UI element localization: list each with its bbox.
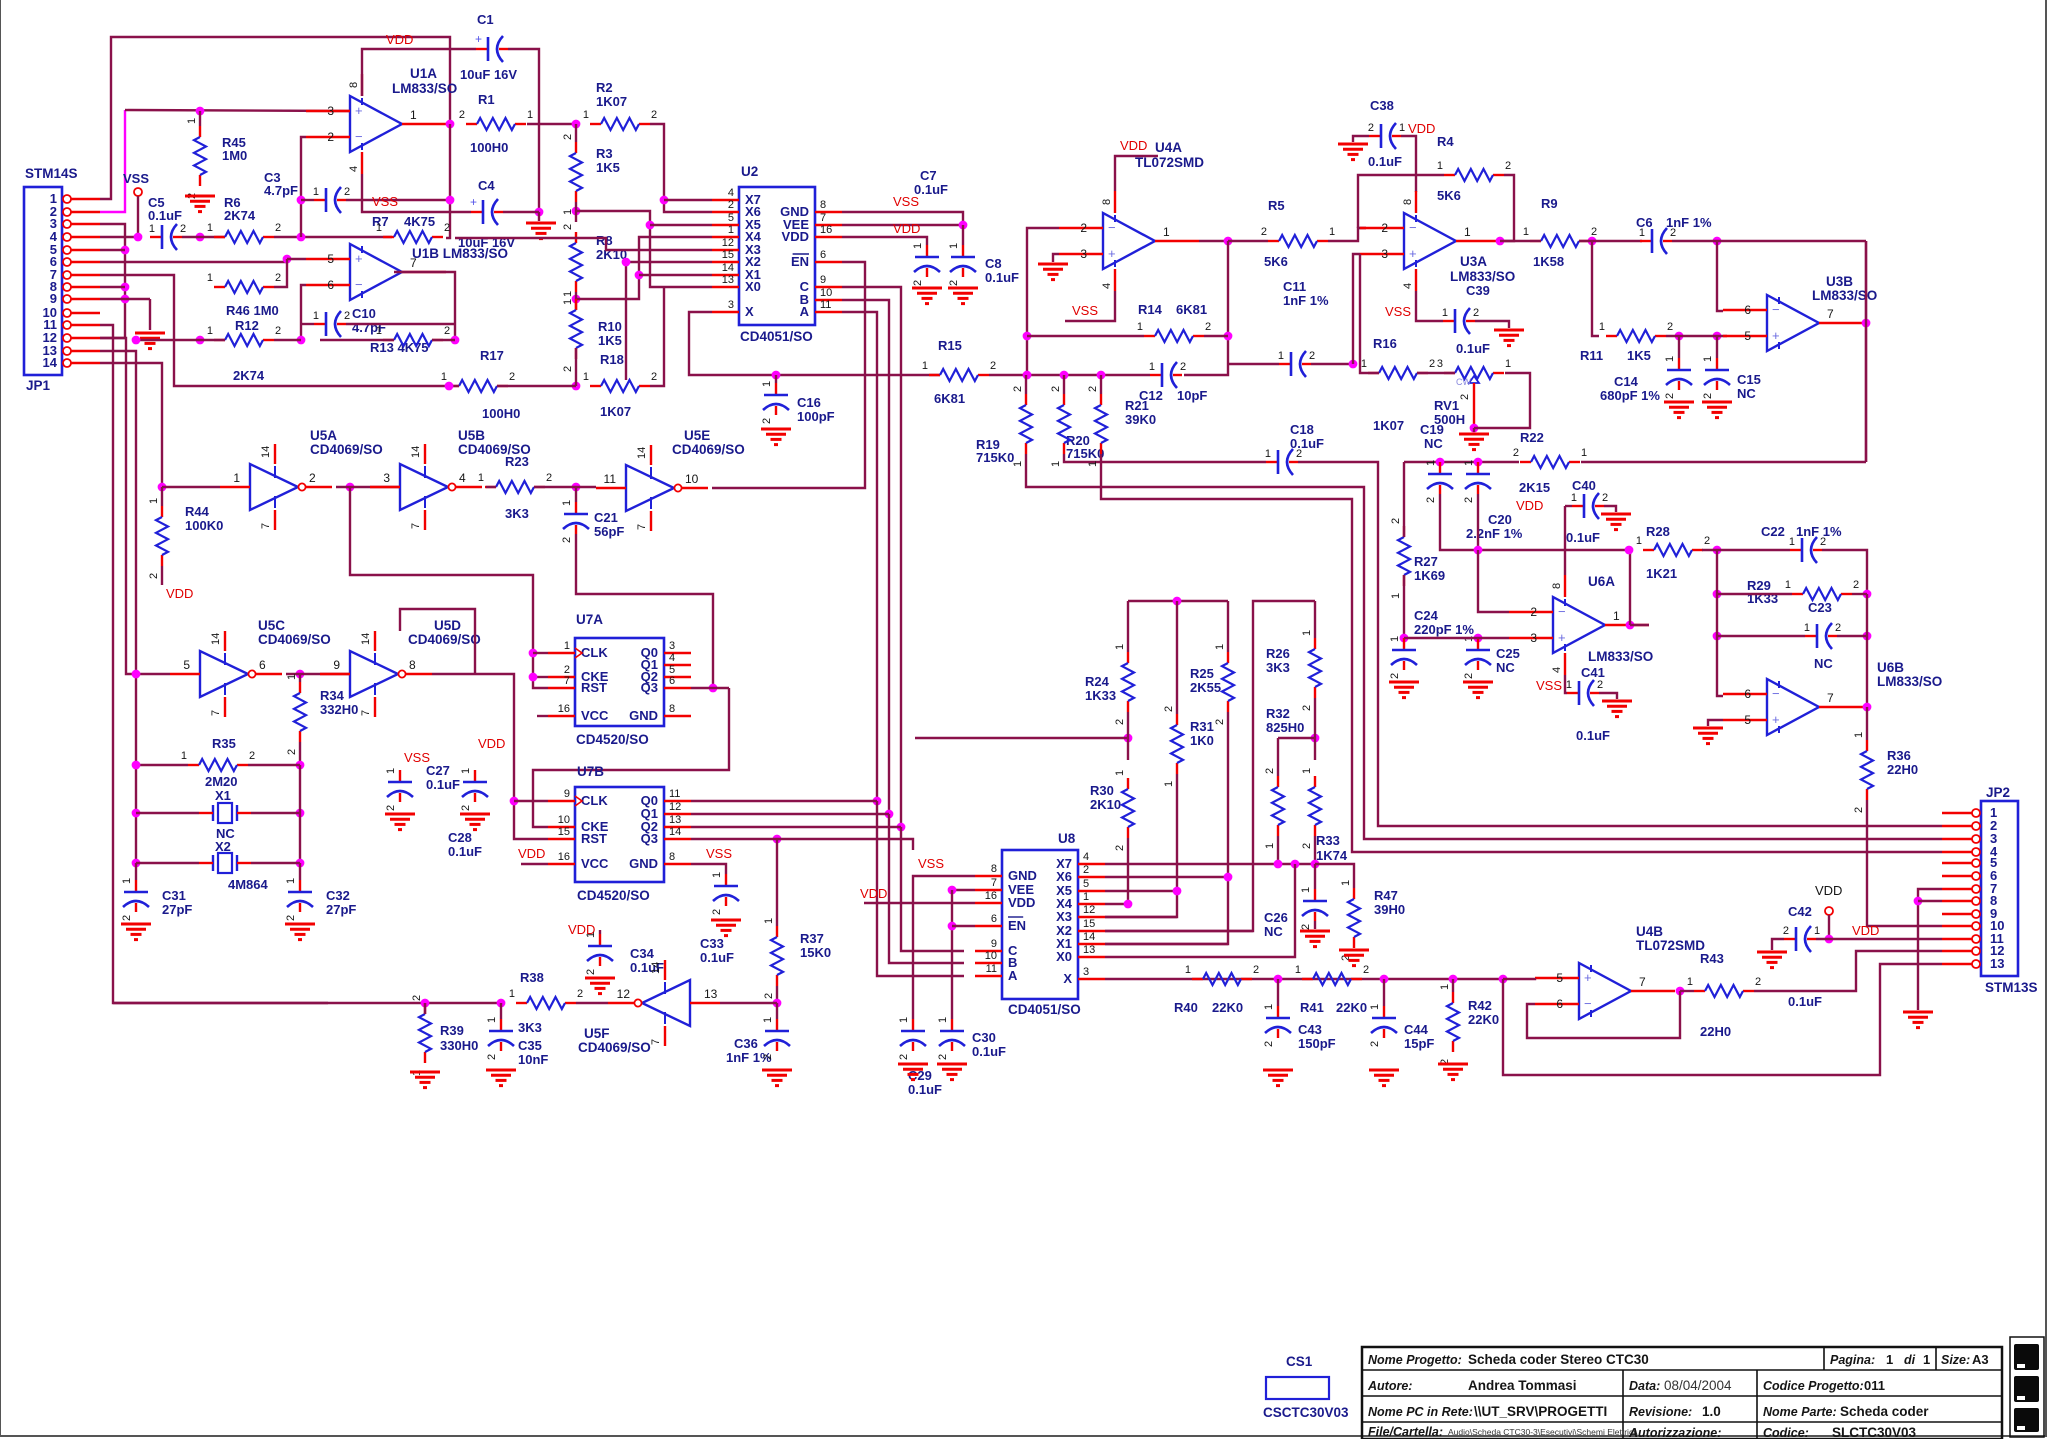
svg-text:332H0: 332H0 xyxy=(320,702,358,717)
wire R16-RV1 xyxy=(1417,372,1455,374)
svg-text:3K3: 3K3 xyxy=(1266,660,1290,675)
svg-text:13: 13 xyxy=(704,987,718,1001)
svg-text:22H0: 22H0 xyxy=(1700,1024,1731,1039)
svg-text:1: 1 xyxy=(922,360,928,372)
svg-text:2: 2 xyxy=(1755,976,1761,988)
wire C19/C20 bottoms xyxy=(1440,494,1629,550)
wire U8 X4 row xyxy=(1105,903,1128,905)
svg-text:1: 1 xyxy=(1361,358,1367,370)
wire trunk y738 xyxy=(915,737,1128,739)
svg-text:Q3: Q3 xyxy=(641,680,658,695)
node R24-R30 xyxy=(1124,734,1133,743)
svg-text:22K0: 22K0 xyxy=(1212,1000,1243,1015)
svg-text:2: 2 xyxy=(1389,673,1401,679)
wire EN net xyxy=(712,262,865,488)
wire U6B+ ground xyxy=(1708,720,1723,726)
svg-text:R23: R23 xyxy=(505,454,529,469)
svg-text:100pF: 100pF xyxy=(797,409,835,424)
svg-text:CLK: CLK xyxy=(581,645,608,660)
svg-text:+: + xyxy=(470,195,477,209)
svg-text:2: 2 xyxy=(651,109,657,121)
svg-text:VDD: VDD xyxy=(1408,121,1435,136)
wire U5D out to U7B CLK/RST xyxy=(432,674,548,839)
svg-text:VSS: VSS xyxy=(918,856,944,871)
svg-text:VDD: VDD xyxy=(1852,923,1879,938)
ground C25 xyxy=(1463,681,1493,684)
svg-text:1M0: 1M0 xyxy=(222,148,247,163)
ground R47 xyxy=(1339,949,1369,952)
svg-text:R33: R33 xyxy=(1316,833,1340,848)
svg-text:1: 1 xyxy=(1390,593,1402,599)
wire U8 X3 row xyxy=(1105,916,1177,918)
node C44 xyxy=(1380,975,1389,984)
svg-text:8: 8 xyxy=(1101,199,1113,205)
svg-text:1: 1 xyxy=(181,750,187,762)
svg-text:2: 2 xyxy=(509,371,515,383)
wire R37.2 to U5F out xyxy=(776,986,778,1003)
svg-text:−: − xyxy=(355,277,363,292)
wire U1B+ input xyxy=(283,255,292,264)
svg-text:CD4520/SO: CD4520/SO xyxy=(576,732,649,747)
svg-text:TL072SMD: TL072SMD xyxy=(1135,155,1204,170)
wire B net xyxy=(842,300,889,814)
svg-text:2: 2 xyxy=(990,360,996,372)
svg-text:X6: X6 xyxy=(1056,869,1072,884)
svg-text:4: 4 xyxy=(459,471,466,485)
svg-text:3: 3 xyxy=(1083,966,1089,978)
wire R4 loop xyxy=(1358,227,1366,229)
svg-text:2: 2 xyxy=(1214,719,1226,725)
svg-text:12: 12 xyxy=(617,987,631,1001)
svg-text:1: 1 xyxy=(583,371,589,383)
svg-text:C26: C26 xyxy=(1264,910,1288,925)
svg-text:NC: NC xyxy=(1264,924,1283,939)
svg-text:8: 8 xyxy=(348,82,360,88)
svg-text:Codice Progetto:: Codice Progetto: xyxy=(1763,1379,1864,1393)
ground C29 xyxy=(898,1063,928,1066)
svg-text:9: 9 xyxy=(564,788,570,800)
svg-text:C28: C28 xyxy=(448,830,472,845)
svg-text:1nF 1%: 1nF 1% xyxy=(1283,293,1329,308)
svg-text:1: 1 xyxy=(1389,636,1401,642)
svg-text:0.1uF: 0.1uF xyxy=(1566,530,1600,545)
ground C34 xyxy=(585,977,615,980)
svg-text:1: 1 xyxy=(1464,225,1471,239)
svg-text:7: 7 xyxy=(1827,691,1834,705)
svg-text:CD4520/SO: CD4520/SO xyxy=(577,888,650,903)
svg-text:2: 2 xyxy=(562,366,574,372)
svg-text:Codice:: Codice: xyxy=(1763,1426,1809,1439)
svg-text:LM833/SO: LM833/SO xyxy=(392,81,457,96)
svg-text:R13 4K75: R13 4K75 xyxy=(370,340,429,355)
svg-text:1: 1 xyxy=(1050,461,1062,467)
wire U6B- vertical xyxy=(1717,550,1723,696)
wire U7B Q1 to B bus xyxy=(885,810,894,819)
svg-text:CD4051/SO: CD4051/SO xyxy=(1008,1002,1081,1017)
wire to X5/X0 xyxy=(576,211,712,287)
svg-text:VSS: VSS xyxy=(372,194,398,209)
svg-text:1K69: 1K69 xyxy=(1414,568,1445,583)
svg-text:SLCTC30V03: SLCTC30V03 xyxy=(1832,1425,1917,1439)
wire X2 down xyxy=(626,262,712,380)
svg-text:3K3: 3K3 xyxy=(518,1020,542,1035)
svg-text:2K10: 2K10 xyxy=(1090,797,1121,812)
svg-text:+: + xyxy=(475,32,482,46)
wire U4A pin4 VSS xyxy=(1065,291,1115,321)
wire JP1.12 down xyxy=(100,338,136,674)
node MPX out xyxy=(1499,975,1508,984)
svg-text:U5F: U5F xyxy=(584,1026,610,1041)
svg-text:1: 1 xyxy=(1163,225,1170,239)
svg-text:4: 4 xyxy=(348,166,360,172)
svg-text:5: 5 xyxy=(1744,713,1751,727)
wire U1B out xyxy=(394,272,455,340)
svg-text:2: 2 xyxy=(937,1054,949,1060)
svg-text:+: + xyxy=(1584,970,1592,985)
svg-text:−: − xyxy=(1772,686,1780,701)
svg-text:2: 2 xyxy=(1702,393,1714,399)
svg-text:1: 1 xyxy=(207,272,213,284)
svg-text:0.1uF: 0.1uF xyxy=(448,844,482,859)
wire JP1.3/5/8/9/12 bus xyxy=(100,224,125,338)
svg-text:+: + xyxy=(355,103,363,118)
wire R27 trunk xyxy=(1404,461,1519,463)
svg-text:6: 6 xyxy=(991,913,997,925)
svg-text:2K55: 2K55 xyxy=(1190,680,1221,695)
svg-text:2K15: 2K15 xyxy=(1519,480,1550,495)
svg-text:2: 2 xyxy=(1301,705,1313,711)
wire U6B feedback vertical xyxy=(1866,594,1868,707)
svg-text:NC: NC xyxy=(1737,386,1756,401)
svg-text:2: 2 xyxy=(1853,579,1859,591)
svg-text:X3: X3 xyxy=(1056,909,1072,924)
svg-text:2: 2 xyxy=(1505,160,1511,172)
svg-text:6: 6 xyxy=(820,249,826,261)
svg-text:VDD: VDD xyxy=(1516,498,1543,513)
svg-text:2: 2 xyxy=(1080,221,1087,235)
node C6.2 xyxy=(1713,237,1722,246)
svg-text:2: 2 xyxy=(1820,536,1826,548)
wire C22.2 xyxy=(1822,550,1867,594)
svg-text:2: 2 xyxy=(562,224,574,230)
wire Q3 to U7B CKE xyxy=(533,688,729,827)
svg-text:56pF: 56pF xyxy=(594,524,624,539)
svg-text:2: 2 xyxy=(327,130,334,144)
svg-text:C42: C42 xyxy=(1788,904,1812,919)
svg-text:1: 1 xyxy=(1087,461,1099,467)
svg-text:2: 2 xyxy=(459,109,465,121)
ground U4A+ xyxy=(1038,263,1068,266)
svg-text:C34: C34 xyxy=(630,946,655,961)
svg-text:R16: R16 xyxy=(1373,336,1397,351)
svg-text:1: 1 xyxy=(1340,880,1352,886)
svg-text:7: 7 xyxy=(1639,975,1646,989)
svg-text:16: 16 xyxy=(985,890,997,902)
svg-text:1: 1 xyxy=(385,768,397,774)
wire R15.2 to summing node xyxy=(989,374,1150,376)
svg-text:100H0: 100H0 xyxy=(470,140,508,155)
svg-text:VSS: VSS xyxy=(1072,303,1098,318)
node R3.1-R8.2 xyxy=(572,207,581,216)
wire R18.2 to X0 node xyxy=(650,287,664,386)
svg-text:1: 1 xyxy=(1571,492,1577,504)
svg-text:VDD: VDD xyxy=(893,221,920,236)
wire C net xyxy=(842,287,901,827)
svg-text:U8: U8 xyxy=(1058,831,1076,846)
svg-text:16: 16 xyxy=(820,224,832,236)
ground C40 xyxy=(1604,506,1616,512)
svg-text:2: 2 xyxy=(1012,386,1024,392)
svg-text:3K3: 3K3 xyxy=(505,506,529,521)
wire U6A- from C19 node xyxy=(1478,550,1509,612)
wire A bus down to U8 xyxy=(877,801,964,976)
wire U4A pin8 VDD xyxy=(1115,156,1158,191)
wire U3A out xyxy=(1496,237,1505,246)
node R8.1 xyxy=(572,295,581,304)
svg-text:Pagina:: Pagina: xyxy=(1830,1353,1875,1367)
svg-text:5: 5 xyxy=(1744,329,1751,343)
svg-text:R10: R10 xyxy=(598,319,622,334)
svg-text:CW: CW xyxy=(1456,377,1471,387)
svg-text:R5: R5 xyxy=(1268,198,1285,213)
wire U7B Q2 to C bus xyxy=(897,823,906,832)
svg-text:0.1uF: 0.1uF xyxy=(426,777,460,792)
svg-text:A: A xyxy=(800,304,810,319)
svg-text:Andrea Tommasi: Andrea Tommasi xyxy=(1468,1378,1577,1393)
svg-text:U5A: U5A xyxy=(310,428,337,443)
ground C28 xyxy=(460,813,490,816)
svg-text:R1: R1 xyxy=(478,92,495,107)
svg-text:1: 1 xyxy=(285,878,297,884)
svg-text:39H0: 39H0 xyxy=(1374,902,1405,917)
svg-text:R40: R40 xyxy=(1174,1000,1198,1015)
svg-text:U3B: U3B xyxy=(1826,274,1853,289)
svg-text:NC: NC xyxy=(1814,656,1833,671)
svg-text:R43: R43 xyxy=(1700,951,1724,966)
svg-text:10: 10 xyxy=(820,287,832,299)
svg-text:2: 2 xyxy=(577,988,583,1000)
svg-text:R41: R41 xyxy=(1300,1000,1324,1015)
svg-text:2: 2 xyxy=(1381,221,1388,235)
svg-text:11: 11 xyxy=(604,472,617,486)
wire JP1.7 to 2K74 trunk xyxy=(100,275,449,386)
svg-text:1: 1 xyxy=(1639,227,1645,239)
svg-text:NC: NC xyxy=(1496,660,1515,675)
wire JP1.11 to bottom trunk xyxy=(100,325,328,1003)
wire U2 VEE xyxy=(842,224,963,226)
svg-text:6: 6 xyxy=(1744,687,1751,701)
node C43 xyxy=(1274,975,1283,984)
svg-text:X: X xyxy=(745,304,754,319)
wire R7 output to X3 xyxy=(455,238,712,250)
svg-text:8: 8 xyxy=(669,703,675,715)
wire R33 to X7 node xyxy=(1314,836,1316,864)
wire R8.1 to X4/X1 xyxy=(576,237,712,299)
svg-text:−: − xyxy=(1558,604,1566,619)
node C4.2 ground xyxy=(535,208,544,217)
svg-text:7: 7 xyxy=(636,524,648,530)
svg-text:7: 7 xyxy=(410,256,417,270)
svg-text:2: 2 xyxy=(948,280,960,286)
svg-text:RV1: RV1 xyxy=(1434,398,1459,413)
svg-text:1: 1 xyxy=(460,768,472,774)
svg-text:9: 9 xyxy=(820,274,826,286)
svg-text:6: 6 xyxy=(259,658,266,672)
svg-text:7: 7 xyxy=(1827,307,1834,321)
wire U8 X7 row xyxy=(1105,863,1315,865)
svg-text:1: 1 xyxy=(486,1017,498,1023)
svg-text:3: 3 xyxy=(1381,247,1388,261)
svg-text:7: 7 xyxy=(260,523,272,529)
svg-text:R22: R22 xyxy=(1520,430,1544,445)
svg-text:3: 3 xyxy=(728,299,734,311)
svg-text:−: − xyxy=(1108,220,1116,235)
svg-text:14: 14 xyxy=(360,633,372,645)
svg-text:12: 12 xyxy=(669,801,681,813)
svg-text:Scheda coder: Scheda coder xyxy=(1840,1404,1929,1419)
svg-text:1: 1 xyxy=(1442,307,1448,319)
svg-text:C38: C38 xyxy=(1370,98,1394,113)
wire JP1.1 to U1A output loop xyxy=(100,37,450,199)
wire U2 X loop to R15 xyxy=(689,312,940,375)
svg-text:U7B: U7B xyxy=(577,764,604,779)
svg-text:1: 1 xyxy=(1137,321,1143,333)
svg-text:3: 3 xyxy=(383,471,390,485)
svg-text:R35: R35 xyxy=(212,736,236,751)
svg-text:1: 1 xyxy=(1523,226,1529,238)
svg-text:2: 2 xyxy=(444,325,450,337)
svg-text:1K74: 1K74 xyxy=(1316,848,1348,863)
wire R43.2 to JP2.12 xyxy=(1754,951,1942,991)
svg-text:Q3: Q3 xyxy=(641,831,658,846)
wire U5A out down to U7A CLK xyxy=(350,487,548,688)
svg-text:U6A: U6A xyxy=(1588,574,1615,589)
svg-text:2: 2 xyxy=(1597,679,1603,691)
node R9.2 xyxy=(1588,237,1597,246)
ground C14 xyxy=(1664,401,1694,404)
svg-text:LM833/SO: LM833/SO xyxy=(1588,649,1653,664)
wire U7A Q3 node xyxy=(709,684,718,693)
ground C43 xyxy=(1263,1069,1293,1072)
svg-text:1K5: 1K5 xyxy=(596,160,620,175)
svg-text:2: 2 xyxy=(912,280,924,286)
svg-text:1K58: 1K58 xyxy=(1533,254,1564,269)
svg-text:9: 9 xyxy=(50,291,57,306)
svg-text:14: 14 xyxy=(43,355,58,370)
svg-text:Revisione:: Revisione: xyxy=(1629,1405,1692,1419)
ground C31 xyxy=(121,923,151,926)
svg-text:1: 1 xyxy=(286,674,298,680)
svg-text:2: 2 xyxy=(1114,719,1126,725)
svg-text:1: 1 xyxy=(912,243,924,249)
svg-text:1: 1 xyxy=(1439,984,1451,990)
svg-text:8: 8 xyxy=(669,851,675,863)
svg-text:CD4069/SO: CD4069/SO xyxy=(408,632,481,647)
svg-text:14: 14 xyxy=(722,262,734,274)
svg-text:4M864: 4M864 xyxy=(228,877,269,892)
svg-text:CS1: CS1 xyxy=(1286,1354,1313,1369)
svg-text:R17: R17 xyxy=(480,348,504,363)
svg-text:14: 14 xyxy=(410,446,422,458)
svg-text:X2: X2 xyxy=(215,839,231,854)
ground R45 xyxy=(185,195,215,198)
wire U1A pin4 VSS to C4 xyxy=(362,174,471,212)
svg-text:C32: C32 xyxy=(326,888,350,903)
svg-text:5: 5 xyxy=(1083,878,1089,890)
svg-text:JP2: JP2 xyxy=(1986,785,2010,800)
svg-text:0.1uF: 0.1uF xyxy=(148,208,182,223)
svg-text:2: 2 xyxy=(1309,350,1315,362)
wire JP1.6 to U1B+ xyxy=(100,259,287,262)
svg-text:1: 1 xyxy=(478,472,484,484)
svg-text:1: 1 xyxy=(583,109,589,121)
svg-text:8: 8 xyxy=(409,658,416,672)
svg-text:2: 2 xyxy=(562,134,574,140)
wire ladder top trunk xyxy=(1128,600,1228,602)
wire U8 X1 row xyxy=(1105,943,1228,945)
svg-text:VCC: VCC xyxy=(581,856,609,871)
svg-text:1: 1 xyxy=(186,118,198,124)
svg-text:GND: GND xyxy=(1008,868,1037,883)
node R10.2 trunk xyxy=(572,382,581,391)
wire R36.2 to JP2.10 xyxy=(1867,800,1942,926)
ground C35 xyxy=(486,1069,516,1072)
svg-text:1K07: 1K07 xyxy=(596,94,627,109)
svg-text:C31: C31 xyxy=(162,888,186,903)
ground C7 xyxy=(912,287,942,290)
svg-text:C27: C27 xyxy=(426,763,450,778)
svg-text:R44: R44 xyxy=(185,504,210,519)
svg-text:2: 2 xyxy=(1670,227,1676,239)
svg-text:15: 15 xyxy=(1083,918,1095,930)
wire U4B feedback xyxy=(1676,987,1685,996)
svg-text:2: 2 xyxy=(344,186,350,198)
svg-text:VDD: VDD xyxy=(1815,883,1842,898)
wire U1B- input xyxy=(301,285,306,340)
svg-text:4: 4 xyxy=(1551,667,1563,673)
wire R6.2 to R7.1 xyxy=(274,236,392,238)
svg-text:1: 1 xyxy=(948,243,960,249)
svg-text:1: 1 xyxy=(1369,1004,1381,1010)
svg-text:CSCTC30V03: CSCTC30V03 xyxy=(1263,1405,1349,1420)
svg-text:8: 8 xyxy=(820,199,826,211)
svg-text:7: 7 xyxy=(991,877,997,889)
svg-text:2: 2 xyxy=(1602,492,1608,504)
svg-text:5: 5 xyxy=(728,212,734,224)
svg-text:7: 7 xyxy=(410,523,422,529)
svg-text:1: 1 xyxy=(1804,622,1810,634)
wire R5.1 to U3A- xyxy=(1328,228,1366,241)
svg-text:1: 1 xyxy=(149,223,155,235)
svg-text:VDD: VDD xyxy=(478,736,505,751)
node C5.2-R6.1 xyxy=(196,233,205,242)
ground C8 xyxy=(948,287,978,290)
ground C24 xyxy=(1389,681,1419,684)
svg-text:22K0: 22K0 xyxy=(1336,1000,1367,1015)
svg-text:13: 13 xyxy=(722,274,734,286)
svg-text:X0: X0 xyxy=(1056,949,1072,964)
svg-text:3: 3 xyxy=(1437,358,1443,370)
svg-text:R36: R36 xyxy=(1887,748,1911,763)
svg-text:13: 13 xyxy=(1083,944,1095,956)
svg-text:2: 2 xyxy=(1050,386,1062,392)
svg-text:Data:: Data: xyxy=(1629,1379,1660,1393)
svg-text:1: 1 xyxy=(1785,579,1791,591)
svg-text:1: 1 xyxy=(1437,160,1443,172)
svg-text:VSS: VSS xyxy=(1536,678,1562,693)
svg-text:0.1uF: 0.1uF xyxy=(1788,994,1822,1009)
svg-text:VDD: VDD xyxy=(782,229,809,244)
